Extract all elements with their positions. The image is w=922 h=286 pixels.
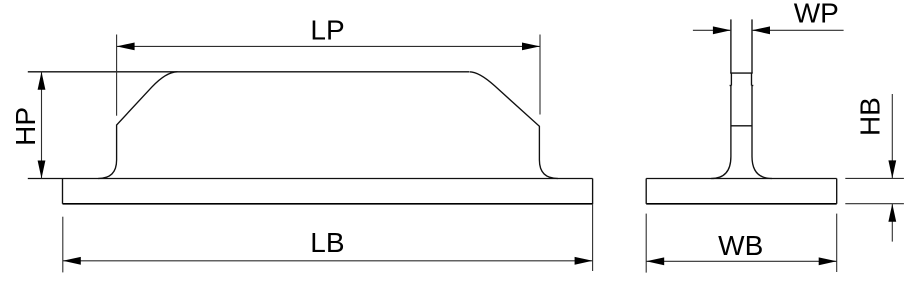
svg-text:LP: LP <box>310 14 344 45</box>
svg-text:LB: LB <box>310 227 344 258</box>
svg-text:WB: WB <box>718 230 763 261</box>
svg-text:HP: HP <box>10 107 41 146</box>
svg-text:HB: HB <box>855 97 886 136</box>
svg-text:WP: WP <box>794 0 839 28</box>
